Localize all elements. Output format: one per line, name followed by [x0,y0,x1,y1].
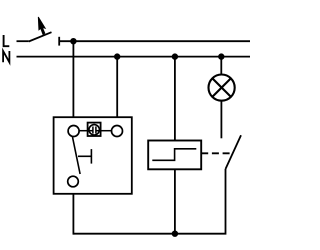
label N [3,51,9,62]
terminal circle output [68,176,79,187]
wire N rail [17,56,251,58]
lead terminal to glow lamp [79,130,93,132]
node N / control box [114,53,120,59]
control unit box (flush-mounted insert) [54,117,132,194]
relay box (switching unit) [148,141,201,170]
wire N down to lamp [220,57,222,75]
wire contact down to bottom rail [73,169,225,234]
mechanical linkage (dashed) [201,152,230,154]
wire N down to relay box [174,57,176,141]
wire L rail (switched) [59,40,250,42]
terminal circle N [112,126,123,137]
node N / lamp [218,53,224,59]
glow lamp electrodes [93,127,96,134]
actuation arrow (press indicator) [38,17,45,35]
glow lamp bulb [89,125,99,135]
wire L feed segment [17,40,29,42]
wire lamp to relay contact [220,101,222,139]
wire relay output down to bottom rail [174,169,176,233]
step function symbol [152,149,196,161]
node on L rail [70,38,76,44]
wire N down to control box [116,57,118,118]
node bottom rail / relay [172,231,178,237]
internal fixed contact with T-bar [78,149,91,164]
lead glow lamp to terminal N [96,130,111,132]
node N / relay [172,53,178,59]
wire control box output down [72,194,74,235]
switch fixed contact tick [58,37,60,46]
relay contact blade (open) [226,135,242,169]
terminal circle L [68,126,79,137]
wire L down to control box [72,41,74,117]
label L [4,35,10,46]
switch S blade (open) [29,32,52,41]
lamp E1 (circle with cross) [209,75,235,101]
glow lamp housing (square) [88,123,101,136]
internal switch blade (open) [73,137,81,174]
